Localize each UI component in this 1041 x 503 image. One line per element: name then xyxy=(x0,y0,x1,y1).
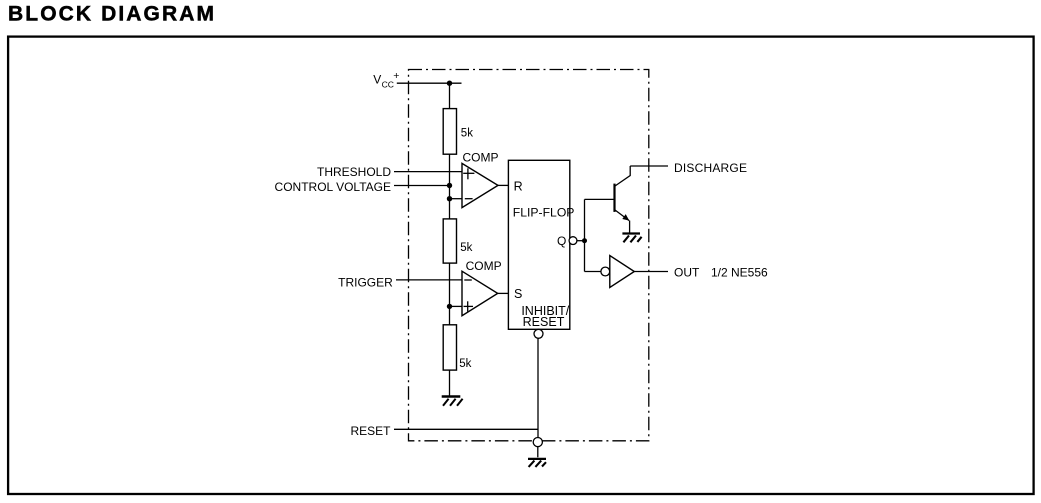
pin label INHIBIT/RESET xyxy=(521,304,569,329)
inverter U2 triangle xyxy=(610,256,635,288)
wire VCC to R1 xyxy=(449,83,451,108)
wire comp1 to R input xyxy=(498,184,508,186)
inverter U2 input bubble xyxy=(601,267,610,276)
svg-text:1/2 NE556: 1/2 NE556 xyxy=(711,266,768,280)
svg-text:5k: 5k xyxy=(461,128,473,140)
wire CONTROL VOLTAGE xyxy=(394,185,450,187)
svg-text:THRESHOLD: THRESHOLD xyxy=(317,165,391,179)
svg-text:Q: Q xyxy=(557,234,566,248)
op-amp comparator 2 xyxy=(462,271,498,316)
ground under R3 xyxy=(442,397,463,406)
op-amp comparator 1 xyxy=(462,163,498,207)
wire emitter to ground xyxy=(629,221,631,233)
svg-text:+: + xyxy=(393,70,399,82)
bubble Q output xyxy=(569,237,577,245)
svg-text:BLOCK DIAGRAM: BLOCK DIAGRAM xyxy=(8,3,216,26)
wire Q node to inverter xyxy=(585,271,601,273)
svg-text:TRIGGER: TRIGGER xyxy=(338,276,393,290)
resistor R2 5k xyxy=(443,219,456,263)
wire Q to junction xyxy=(577,240,585,242)
ground at emitter xyxy=(622,234,641,243)
svg-text:COMP: COMP xyxy=(466,259,502,273)
terminal circle reset xyxy=(533,438,542,447)
minus input mark comparator 1 xyxy=(465,198,473,200)
flip-flop U1 box xyxy=(508,160,569,329)
plus input mark comparator 1 xyxy=(463,168,474,179)
plus input mark comparator 2 xyxy=(464,301,474,311)
svg-text:OUT: OUT xyxy=(674,266,700,280)
wire R3 to ground xyxy=(449,370,451,395)
wire reset terminal to ground xyxy=(537,447,539,458)
ground at reset xyxy=(528,459,546,467)
svg-text:COMP: COMP xyxy=(463,150,499,164)
wire Q node vertical xyxy=(584,199,586,271)
junction divider/comp1 minus xyxy=(447,196,452,201)
wire Q node to transistor base xyxy=(585,198,615,200)
svg-text:DISCHARGE: DISCHARGE xyxy=(674,161,747,175)
wire divider to comp1 minus xyxy=(450,198,463,200)
svg-text:RESET: RESET xyxy=(350,424,391,438)
IC boundary (dash-dot) xyxy=(409,70,649,441)
wire DISCHARGE xyxy=(630,165,668,167)
node VCC label xyxy=(373,70,399,89)
svg-text:CONTROL VOLTAGE: CONTROL VOLTAGE xyxy=(275,180,391,194)
wire comp2 to S input xyxy=(498,292,509,294)
emitter arrowhead xyxy=(622,214,629,221)
junction control voltage/divider xyxy=(447,183,452,188)
svg-text:5k: 5k xyxy=(460,242,472,254)
svg-text:V: V xyxy=(373,72,381,86)
wire OUT xyxy=(634,271,668,273)
transistor Q1 base bar xyxy=(613,184,615,212)
minus input mark comparator 2 xyxy=(464,279,472,281)
wire TRIGGER xyxy=(396,279,462,281)
resistor R3 5k xyxy=(443,325,456,370)
wire RESET horizontal xyxy=(394,428,538,430)
transistor Q1 collector xyxy=(615,166,630,186)
wire VCC rail xyxy=(397,82,462,84)
wire R1 to divider xyxy=(449,154,451,219)
junction VCC/R1 xyxy=(447,81,452,86)
svg-text:CC: CC xyxy=(382,79,394,89)
resistor R1 5k xyxy=(443,109,456,155)
svg-text:R: R xyxy=(514,179,523,193)
transistor Q1 emitter xyxy=(615,210,629,221)
junction Q node xyxy=(582,238,587,243)
wire inhibit bubble to reset terminal xyxy=(537,338,539,437)
junction divider/comp2 plus xyxy=(447,304,452,309)
wire THRESHOLD xyxy=(394,171,462,173)
svg-text:FLIP-FLOP: FLIP-FLOP xyxy=(513,206,575,220)
wire divider to comp2 plus xyxy=(450,305,463,307)
svg-text:S: S xyxy=(514,287,522,301)
wire R2 to R3 xyxy=(449,263,451,325)
svg-text:RESET: RESET xyxy=(523,315,565,329)
svg-text:5k: 5k xyxy=(459,358,471,370)
bubble inhibit/reset xyxy=(534,329,543,338)
